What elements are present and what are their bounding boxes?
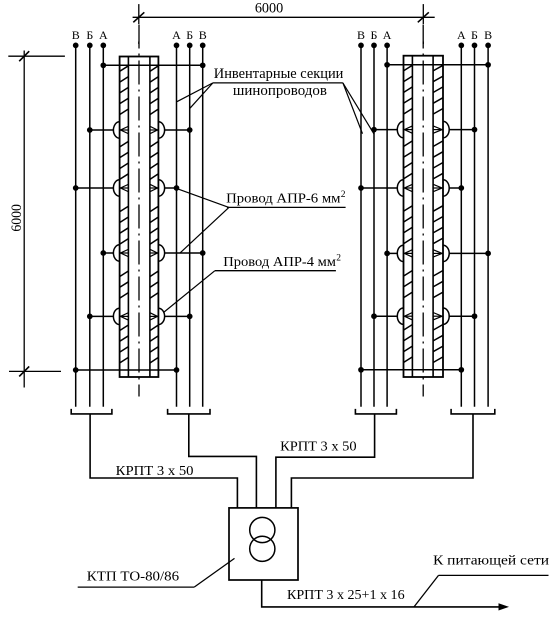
tap row 1 right busbar: left tap wire with junction dot: [371, 127, 397, 133]
tap row 2 right busbar: left tap-off bump (plug-in connector): [397, 180, 412, 196]
svg-text:КТП ТО-80/86: КТП ТО-80/86: [87, 569, 179, 584]
arrowhead (to supply network): [499, 603, 510, 610]
tap row 2 left busbar: left tap-off bump (plug-in connector): [113, 180, 128, 196]
tap row 2 right busbar: left tap wire with junction dot: [358, 185, 397, 191]
wire: vertical riser x=202.7 (left busbar): [202, 45, 204, 406]
svg-text:А: А: [383, 28, 392, 42]
wire: vertical riser x=488.1 (right busbar): [487, 45, 489, 406]
wire: vertical riser x=75.7 (left busbar): [75, 45, 77, 406]
svg-text:2: 2: [341, 190, 346, 200]
tap row 3 right busbar: left tap-off bump (plug-in connector): [397, 245, 412, 261]
svg-text:КРПТ 3 х 50: КРПТ 3 х 50: [116, 464, 194, 479]
svg-text:К питающей сети: К питающей сети: [433, 554, 550, 569]
wire: bottom feed line, right busbar: [358, 367, 464, 373]
transformer symbol: lower winding circle: [250, 536, 275, 561]
wire: vertical riser x=176.5 (left busbar): [176, 45, 178, 406]
node: wire top terminal dot: [87, 43, 93, 49]
svg-text:Инвентарные секции: Инвентарные секции: [214, 66, 344, 82]
busbar section 2 (right): outer outline: [404, 56, 444, 377]
cable KRPT from bracket 3 (right busbar, left group) to transformer: [276, 414, 375, 508]
node: wire top terminal dot: [73, 43, 79, 49]
terminal bracket 4 (right busbar, right group): [451, 409, 495, 414]
svg-text:6000: 6000: [9, 204, 25, 231]
svg-text:Б: Б: [371, 28, 378, 42]
svg-text:В: В: [484, 28, 492, 42]
svg-text:В: В: [357, 28, 365, 42]
tap row 4 right busbar: left tap wire with junction dot: [371, 313, 397, 319]
svg-text:КРПТ 3 х 25+1 х 16: КРПТ 3 х 25+1 х 16: [287, 588, 405, 603]
wire: bottom feed line, left busbar (phase V left to phase A right): [73, 367, 179, 373]
extension line from left busbar centerline (top): [138, 4, 140, 44]
svg-text:2: 2: [336, 253, 341, 263]
tap row 2 right busbar: right tap-off bump (plug-in connector): [433, 180, 449, 196]
wire: vertical riser x=189.7 (left busbar): [189, 45, 191, 406]
tap row 3 right busbar: right tap-off bump (plug-in connector): [433, 245, 449, 261]
cable KRPT from bracket 1 (left busbar, left group) to transformer: [90, 414, 237, 508]
tap row 2 left busbar: right tap-off bump (plug-in connector): [150, 180, 165, 196]
busbar section 2 (right): dash-dot centerline: [422, 25, 424, 397]
tap row 4 right busbar: right tap-off bump (plug-in connector): [433, 308, 449, 324]
label: Provod APR-6 mm2 with underline and leaders: [178, 189, 346, 253]
svg-text:А: А: [99, 28, 108, 42]
terminal bracket 2 (left busbar, right group): [168, 409, 210, 414]
tap row 1 right busbar: right tap wire with junction dot: [449, 127, 477, 133]
tap row 3 left busbar: left tap wire with junction dot: [100, 250, 113, 256]
label: Provod APR-4 mm2 with underline and leader: [164, 253, 342, 312]
leader lines from busbar sections label to left busbar wires: [177, 83, 213, 108]
node: wire top terminal dot: [485, 43, 491, 49]
node: wire top terminal dot: [358, 43, 364, 49]
tap row 2 left busbar: left tap wire with junction dot: [73, 185, 114, 191]
tap row 4 right busbar: left tap-off bump (plug-in connector): [397, 308, 412, 324]
label: KTP TO-80/86 with leader: [78, 558, 235, 587]
busbar section 2 (right): inner wall edges: [411, 56, 413, 377]
wire: vertical riser x=89.8 (left busbar): [89, 45, 91, 406]
tap row 1 left busbar: right tap wire with junction dot: [164, 127, 192, 133]
node: wire top terminal dot: [472, 43, 478, 49]
cable KRPT from bracket 4 (right busbar, right group) to transformer: [291, 414, 473, 508]
wire: vertical riser x=474.5 (right busbar): [474, 45, 476, 406]
wire: vertical riser x=103.3 (left busbar): [102, 45, 104, 406]
svg-text:А: А: [172, 28, 181, 42]
wire: vertical riser x=387.1 (right busbar): [386, 45, 388, 406]
terminal bracket 3 (right busbar, left group): [355, 409, 396, 414]
svg-text:Б: Б: [86, 28, 93, 42]
node: wire top terminal dot: [100, 43, 106, 49]
svg-text:Провод АПР-4 мм: Провод АПР-4 мм: [223, 255, 336, 270]
svg-text:В: В: [199, 28, 207, 42]
label: to supply network (K pitayushchey seti) with underline: [414, 554, 550, 607]
label: Inventarnye sektsii shinoprovodov (inventory busbar sections): [213, 66, 344, 99]
extension line from right busbar centerline (top): [422, 4, 424, 44]
busbar section 1 (left): outer outline: [120, 57, 159, 378]
node: wire top terminal dot: [200, 43, 206, 49]
tap row 1 left busbar: left tap wire with junction dot: [87, 127, 114, 133]
svg-text:6000: 6000: [255, 1, 283, 17]
tap row 3 left busbar: left tap-off bump (plug-in connector): [113, 245, 128, 261]
tap row 4 left busbar: left tap-off bump (plug-in connector): [113, 308, 128, 324]
tap row 4 right busbar: right tap wire with junction dot: [449, 313, 477, 319]
wire: top feed line, right busbar: [384, 62, 491, 68]
extension line (top left): [8, 55, 65, 57]
svg-text:Б: Б: [471, 28, 478, 42]
svg-text:А: А: [457, 28, 466, 42]
tap row 3 right busbar: left tap wire with junction dot: [384, 251, 397, 257]
tap row 1 right busbar: right tap-off bump (plug-in connector): [433, 121, 449, 137]
busbar section 2 (right): wall hatching: [404, 65, 413, 362]
busbar section 1 (left): dash-dot centerline: [138, 25, 140, 397]
tap row 3 right busbar: right tap wire with junction dot: [449, 251, 491, 257]
transformer substation KTP TO-80/86: box: [229, 508, 298, 580]
svg-text:Б: Б: [186, 28, 193, 42]
cable KRPT 3x25+1x16 from transformer to supply network: [262, 580, 501, 607]
node: wire top terminal dot: [371, 43, 377, 49]
tap row 3 left busbar: right tap wire with junction dot: [164, 250, 205, 256]
svg-text:В: В: [72, 28, 80, 42]
wire: vertical riser x=374.0 (right busbar): [373, 45, 375, 406]
tap row 1 right busbar: left tap-off bump (plug-in connector): [397, 121, 412, 137]
svg-text:КРПТ 3 х 50: КРПТ 3 х 50: [280, 440, 357, 455]
tap row 3 left busbar: right tap-off bump (plug-in connector): [150, 245, 165, 261]
busbar section 1 (left): inner wall edges: [127, 57, 129, 378]
wire: vertical riser x=361.0 (right busbar): [360, 45, 362, 406]
node: wire top terminal dot: [458, 43, 464, 49]
tap row 2 left busbar: right tap wire with junction dot: [164, 185, 179, 191]
terminal bracket 1 (left busbar, left group): [71, 409, 112, 414]
svg-text:шинопроводов: шинопроводов: [233, 83, 327, 99]
wire: top feed line, left busbar (phase A left to phase V right): [100, 62, 205, 68]
transformer symbol: upper winding circle: [250, 517, 275, 542]
tap row 1 left busbar: left tap-off bump (plug-in connector): [113, 122, 128, 138]
tap row 4 left busbar: left tap wire with junction dot: [87, 314, 114, 320]
cable KRPT from bracket 2 (left busbar, right group) to transformer: [189, 414, 257, 508]
tap row 4 left busbar: right tap wire with junction dot: [164, 314, 192, 320]
node: wire top terminal dot: [174, 43, 180, 49]
tap row 2 right busbar: right tap wire with junction dot: [449, 185, 464, 191]
tap row 4 left busbar: right tap-off bump (plug-in connector): [150, 308, 165, 324]
extension line (bottom left): [9, 370, 61, 372]
tap row 1 left busbar: right tap-off bump (plug-in connector): [150, 122, 165, 138]
dimension line 6000 (left, busbar section length): [19, 51, 29, 388]
node: wire top terminal dot: [384, 43, 390, 49]
dimension line 6000 (top, between busbar centerlines): [133, 12, 435, 22]
wire: vertical riser x=461.3 (right busbar): [460, 45, 462, 406]
svg-text:Провод АПР-6 мм: Провод АПР-6 мм: [226, 192, 341, 207]
busbar section 1 (left): wall hatching: [120, 66, 129, 363]
leader lines from busbar sections label to right busbar wires: [343, 83, 374, 134]
node: wire top terminal dot: [187, 43, 193, 49]
